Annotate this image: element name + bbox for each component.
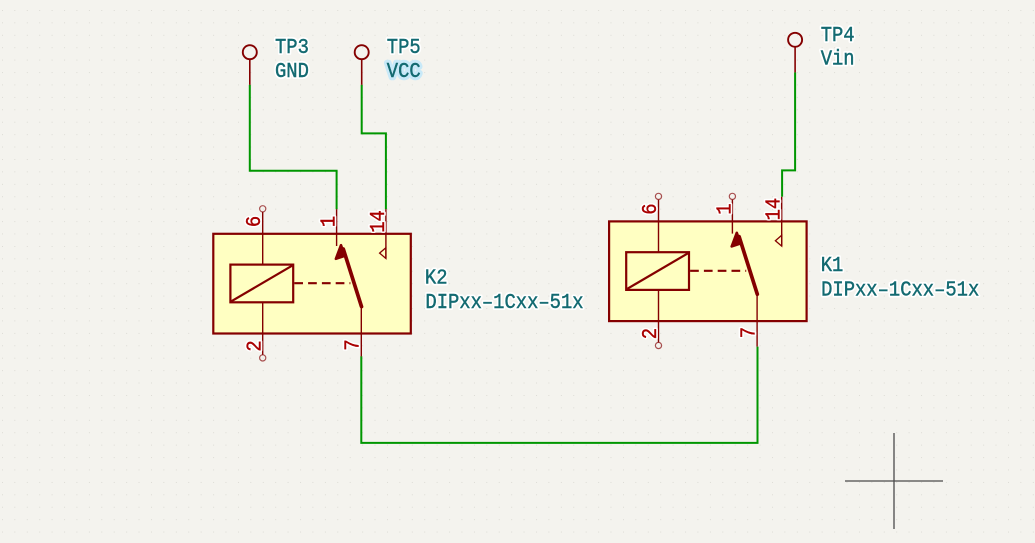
K1 switch blade	[732, 233, 758, 294]
svg-text:Vin: Vin	[821, 47, 855, 71]
K1 actuator dashed link	[690, 270, 746, 272]
svg-text:1: 1	[318, 216, 342, 227]
K2 pin 14	[380, 209, 386, 258]
K2 pin 6	[260, 206, 266, 265]
test point TP5	[355, 45, 369, 85]
svg-text:GND: GND	[275, 60, 309, 84]
K1 pin 14	[775, 197, 781, 246]
K1 body	[609, 221, 807, 321]
svg-text:DIPxx–1Cxx–51x: DIPxx–1Cxx–51x	[821, 278, 979, 302]
K2 body	[213, 234, 410, 334]
K2 actuator dashed link	[294, 282, 350, 284]
svg-text:VCC: VCC	[387, 60, 421, 84]
wire TP4 to K1 pin 14	[782, 72, 795, 196]
test point TP3	[243, 45, 257, 85]
K2 pin 7	[360, 307, 362, 357]
K1 pin 2	[655, 290, 661, 349]
K2 pin 1	[336, 209, 338, 246]
svg-text:K2: K2	[425, 266, 448, 290]
svg-text:7: 7	[738, 327, 762, 338]
relay K1	[609, 193, 807, 348]
svg-text:14: 14	[763, 198, 787, 221]
relay K2	[213, 206, 410, 361]
K2 pin 2	[260, 302, 266, 361]
K2 coil	[230, 265, 293, 303]
wire K2 pin 7 to K1 pin 7	[361, 347, 757, 443]
K1 pin 6	[655, 193, 661, 252]
K2 switch blade	[336, 245, 362, 306]
wire TP3 to K2 pin 1	[250, 85, 337, 209]
svg-text:7: 7	[342, 339, 366, 350]
K1 pin 7	[756, 294, 758, 346]
svg-text:6: 6	[243, 216, 267, 227]
svg-text:1: 1	[713, 203, 737, 214]
test point TP4	[788, 33, 802, 73]
wire TP5 to K2 pin 14	[362, 85, 386, 209]
cursor crosshair	[845, 433, 943, 529]
svg-text:14: 14	[367, 210, 391, 233]
svg-text:TP3: TP3	[275, 36, 309, 60]
svg-text:6: 6	[639, 203, 663, 214]
svg-text:TP4: TP4	[821, 24, 855, 48]
K1 pin 1	[729, 193, 735, 233]
svg-text:TP5: TP5	[387, 36, 421, 60]
K1 coil	[626, 252, 689, 290]
svg-text:DIPxx–1Cxx–51x: DIPxx–1Cxx–51x	[425, 291, 583, 315]
svg-text:2: 2	[243, 340, 267, 351]
svg-text:2: 2	[639, 328, 663, 339]
svg-text:K1: K1	[821, 254, 844, 278]
